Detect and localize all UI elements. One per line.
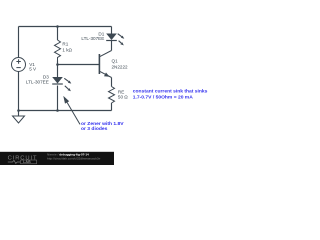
wire base connection (node B to Q1 base)	[58, 64, 100, 66]
wire top rail	[19, 26, 112, 28]
svg-text:2N2222: 2N2222	[112, 65, 129, 70]
wire left rail upper (top to V1)	[18, 27, 20, 58]
ground	[13, 116, 25, 123]
wire D1 anode drop from top rail	[111, 27, 113, 34]
svg-text:R1: R1	[62, 42, 68, 47]
transistor Q1	[99, 51, 111, 78]
svg-text:http://circuitlab.com/c/32dbwr: http://circuitlab.com/c/32dbwrazuack3e	[47, 157, 101, 161]
CircuitLab logo	[8, 156, 38, 165]
wire left rail lower (V1 to bottom)	[18, 72, 20, 111]
node junction top (R1 / top rail)	[56, 25, 59, 28]
wire bottom rail	[19, 110, 112, 112]
svg-text:or Zener with 1.8V: or Zener with 1.8V	[81, 121, 124, 127]
resistor R1	[55, 40, 61, 61]
svg-text:or 3 diodes: or 3 diodes	[81, 126, 108, 132]
svg-text:1 kΩ: 1 kΩ	[62, 48, 72, 53]
LED D1	[106, 34, 124, 46]
annotation arrow (points to D3)	[63, 96, 80, 125]
wire Q1 emitter to RE	[111, 78, 113, 87]
wire RE bottom lead	[111, 103, 113, 111]
wire R1 top lead	[57, 27, 59, 41]
resistor RE	[109, 87, 115, 104]
svg-text:constant current sink that sin: constant current sink that sinks	[133, 88, 208, 94]
svg-text:5 V: 5 V	[29, 67, 37, 72]
svg-text:Q1: Q1	[112, 59, 119, 64]
node junction bottom (D3 / bottom rail)	[56, 109, 59, 112]
node junction base (R1 / base / D3)	[56, 63, 59, 66]
watermark bar	[0, 152, 114, 165]
svg-text:LAB: LAB	[23, 160, 31, 164]
wire D1 cathode to Q1 collector	[111, 41, 113, 51]
svg-text:50 Ω: 50 Ω	[118, 95, 128, 100]
wire D3 cathode to bottom rail	[57, 86, 59, 111]
wire ground stub	[18, 111, 20, 117]
svg-text:LTL-307EE: LTL-307EE	[26, 79, 49, 84]
svg-text:LTL-307EE: LTL-307EE	[81, 36, 104, 41]
node junction ground (left rail / bottom rail)	[17, 109, 20, 112]
LED D3	[52, 77, 71, 91]
svg-text:1.7-0.7V / 50Ohm = 20 mA: 1.7-0.7V / 50Ohm = 20 mA	[133, 94, 193, 100]
voltage source V1	[12, 58, 26, 72]
wire R1 bottom lead to node B	[57, 61, 59, 78]
